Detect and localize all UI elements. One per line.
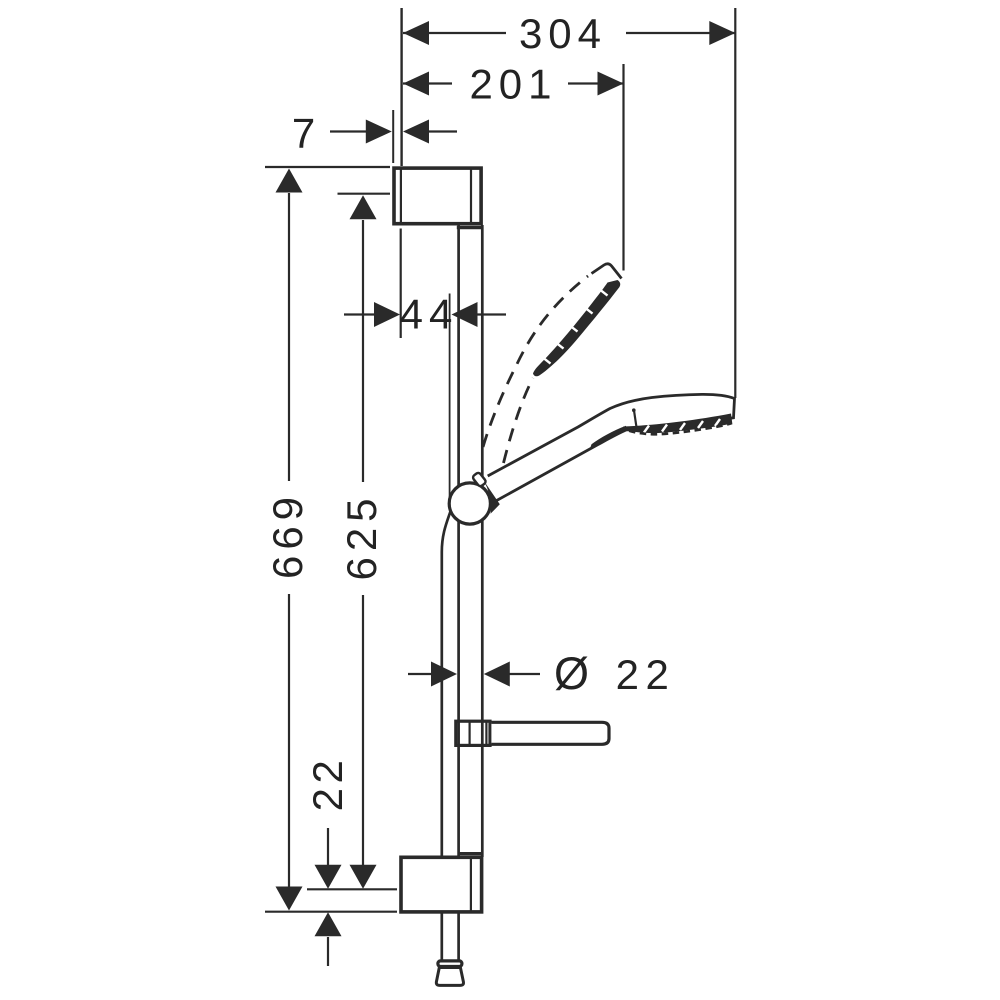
top wall bracket outer box	[394, 168, 481, 224]
dimension 669 vertical line + arrows	[276, 169, 303, 193]
dimension 44 tail line left	[344, 313, 376, 315]
dimension 625 vertical line + arrows	[350, 195, 377, 219]
soap dish clamp inner line 2	[485, 721, 487, 745]
soap dish clamp inner line 1	[469, 721, 471, 745]
dimension diameter-22 left arrow (points right)	[431, 662, 457, 687]
dimension 7 tail line	[330, 130, 367, 132]
nozzle scallop bumps	[629, 423, 732, 434]
dashed handshower left edge	[483, 276, 588, 447]
handshower solid outline	[488, 394, 735, 502]
svg-text:7: 7	[292, 110, 315, 157]
hose cone end	[436, 968, 463, 986]
rail (shower bar) left edge	[457, 225, 460, 857]
bottom wall bracket box	[401, 857, 482, 912]
dashed handshower head tip (solid)	[592, 264, 622, 279]
dimension 201 right arrow	[598, 72, 624, 96]
dimension 304 line	[403, 32, 506, 34]
svg-text:44: 44	[400, 291, 459, 338]
hose nut top bar	[438, 961, 462, 967]
svg-text:201: 201	[469, 61, 557, 108]
dashed nozzle white slashes	[544, 290, 608, 363]
dashed handshower nozzle band	[533, 280, 620, 376]
dimension 44 left arrow (points right)	[374, 302, 400, 327]
dashed handshower right edge	[504, 378, 534, 463]
svg-text:22: 22	[304, 756, 351, 812]
extension line 44 left below bracket (x=400.7)	[400, 229, 402, 339]
dimension 201 line	[403, 82, 452, 84]
hose below bracket right	[457, 913, 460, 960]
dimension 304 right arrow	[709, 21, 735, 45]
dimension 201 left arrow	[403, 72, 429, 96]
dimension diameter-22 line left	[408, 673, 434, 675]
soap dish clamp	[456, 721, 490, 745]
svg-text:304: 304	[519, 10, 607, 57]
svg-text:625: 625	[338, 492, 385, 580]
svg-text:Ø 22: Ø 22	[554, 648, 675, 699]
extension line 669 bottom horizontal	[265, 911, 397, 913]
extension line wall-ref vertical (top left, x=401.6)	[400, 8, 402, 166]
pivot knob circle	[449, 483, 490, 524]
hose below bracket left	[440, 913, 443, 960]
extension line 201 right (x=623.5)	[622, 64, 624, 271]
dimension diameter-22 right arrow (points left)	[484, 662, 510, 687]
clip tab on pivot	[472, 472, 487, 488]
extension line 669 top horizontal	[265, 166, 390, 168]
dimension 7 right arrow (points left)	[403, 120, 429, 144]
extension line 304 right (x=735.3)	[734, 8, 736, 398]
dimension 44 right arrow (points left)	[452, 302, 478, 327]
dimension 7 left arrow (points right)	[366, 120, 392, 144]
top bracket inner line left	[400, 168, 402, 224]
extension line 7-dim short (x=393.2)	[392, 110, 394, 163]
handshower underside shadow band	[590, 426, 626, 449]
bottom bracket inner line	[470, 858, 472, 911]
bottom bracket collar step	[459, 852, 483, 855]
rail (shower bar) right edge	[481, 225, 484, 857]
dark wedge between pivot and handle	[484, 481, 500, 514]
soap dish tray	[491, 722, 609, 744]
dimension 304 left arrow	[403, 21, 429, 45]
hose upper curve from pivot	[442, 511, 451, 857]
nozzle band white slashes	[644, 419, 720, 433]
handshower nozzle band (solid)	[623, 414, 732, 434]
extension line 625 top horizontal	[338, 193, 391, 195]
top bracket collar step	[457, 226, 483, 229]
extension line 625/22 bottom horizontal	[307, 888, 397, 890]
svg-text:669: 669	[264, 491, 311, 579]
top bracket inner line right	[470, 168, 472, 224]
extension line 44 right / hose centerline (x=449.6)	[449, 294, 451, 500]
face parting tick	[634, 411, 637, 429]
dimension 22 vertical line + arrows	[327, 828, 329, 867]
